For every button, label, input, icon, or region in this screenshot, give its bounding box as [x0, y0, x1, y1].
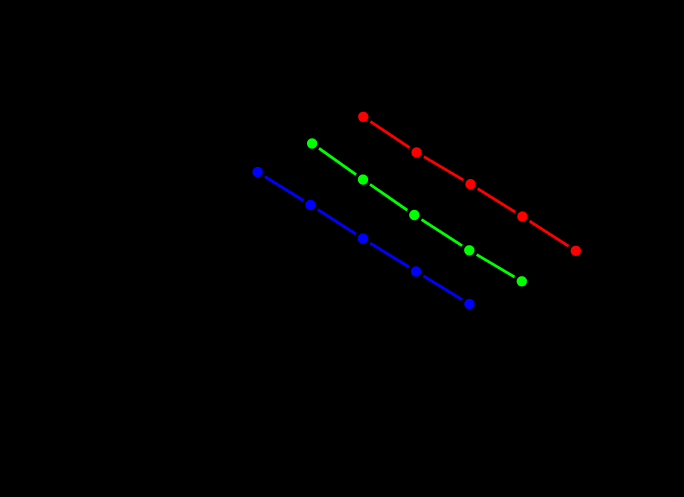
blue series markers [252, 167, 474, 309]
blue series line segments [265, 177, 462, 300]
red series line segments [370, 122, 568, 247]
red series markers [358, 112, 581, 256]
green series markers [307, 138, 527, 286]
green series line segments [319, 148, 515, 277]
